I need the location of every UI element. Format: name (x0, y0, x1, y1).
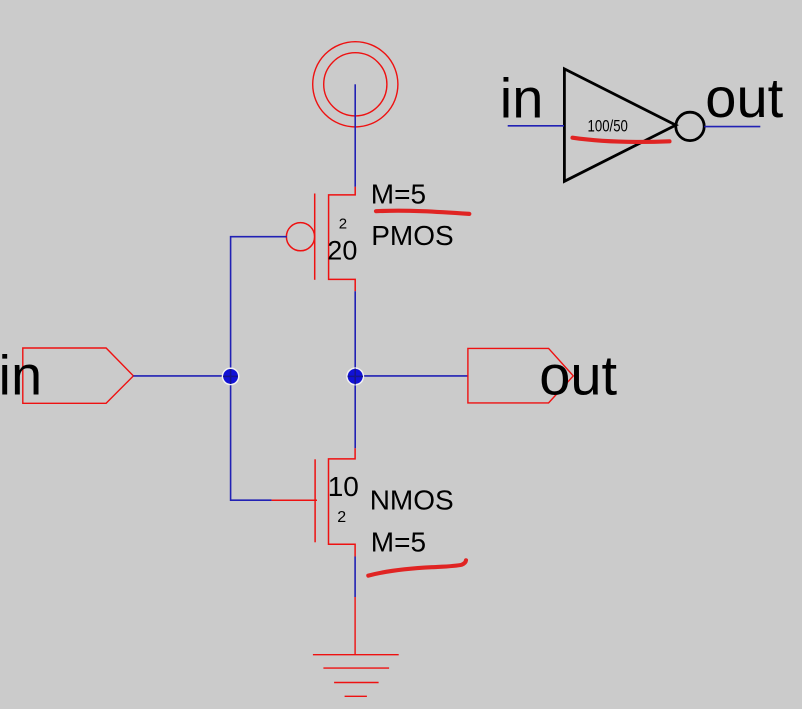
ground symbol (313, 597, 399, 696)
svg-text:in: in (500, 67, 544, 130)
svg-text:2: 2 (337, 509, 346, 526)
svg-text:out: out (539, 344, 617, 407)
transistor Q1 PMOS symbol (285, 187, 356, 291)
wire output node to out-pin (355, 375, 468, 377)
wire gate bus: bubble to left rail down to NMOS gate (231, 237, 287, 501)
svg-text:20: 20 (327, 236, 357, 266)
pin OUT (red pentagon) (468, 348, 573, 403)
inverter output bubble (676, 112, 704, 140)
wire PMOS drain to output node (354, 291, 356, 448)
svg-text:in: in (0, 343, 42, 406)
svg-text:M=5: M=5 (371, 178, 426, 209)
pin IN (red pentagon) (23, 348, 134, 403)
wire inverter input (508, 125, 564, 127)
wire VDD to PMOS source (354, 84, 356, 187)
red marker stroke through inverter (573, 138, 670, 142)
node junction dot (output node) (346, 367, 364, 385)
node junction dot (gate bus) (222, 368, 240, 386)
transistor Q2 NMOS symbol (315, 448, 355, 556)
svg-text:NMOS: NMOS (370, 484, 454, 515)
wire in-pin to gate node (133, 375, 230, 377)
NMOS gate stub (red) (272, 499, 317, 501)
wire NMOS source to ground (354, 557, 356, 598)
svg-text:PMOS: PMOS (371, 220, 453, 251)
wire inverter output (704, 126, 760, 128)
svg-text:100/50: 100/50 (588, 118, 628, 136)
svg-text:2: 2 (339, 216, 347, 233)
svg-text:10: 10 (328, 471, 359, 502)
power symbol VDD (double circle) (313, 42, 398, 127)
svg-text:out: out (705, 66, 783, 129)
red marker underline under NMOS M=5 (368, 560, 466, 575)
svg-text:M=5: M=5 (371, 526, 426, 557)
inverter gate symbol U1 (top right) (564, 69, 675, 181)
red marker underline under PMOS M=5 (376, 211, 469, 214)
